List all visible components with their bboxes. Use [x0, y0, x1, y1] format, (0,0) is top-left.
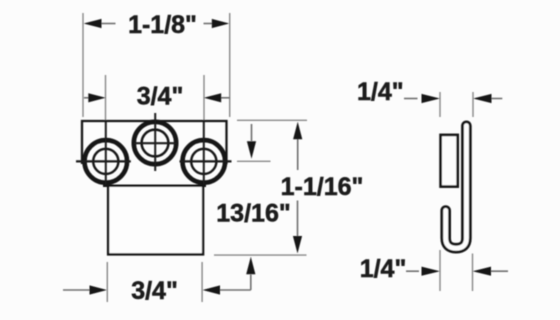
- dimension arrow 1-1/8 right: [204, 23, 213, 25]
- wire: extension line right of side top 1/4 dimension: [472, 92, 474, 117]
- wire: bottom extension line for height dimensions: [214, 254, 307, 256]
- wire: roller centerline reference for 13/16 dimension: [237, 160, 271, 162]
- roller middle vertical centerline: [154, 113, 156, 171]
- svg-text:1-1/8": 1-1/8": [128, 11, 197, 39]
- carrier stem (lower block): [108, 186, 203, 255]
- roller left horizontal centerline: [76, 160, 131, 162]
- roller right vertical centerline: [203, 122, 205, 185]
- wire: extension line right of top 3/4 dimension (roller centerline): [203, 75, 205, 122]
- dimension arrow 1-1/16 bottom (points down): [297, 201, 299, 238]
- svg-text:1/4": 1/4": [357, 78, 404, 106]
- roller left vertical centerline: [105, 122, 107, 185]
- wire: extension line left of side bottom 1/4 dimension: [439, 250, 441, 291]
- svg-text:3/4": 3/4": [137, 83, 184, 111]
- svg-text:1-1/16": 1-1/16": [281, 173, 364, 201]
- dimension arrow 13/16 top (points down): [251, 124, 253, 141]
- roller right inner ring: [191, 149, 216, 174]
- wire: extension line right of bottom 3/4 dimension: [201, 262, 203, 302]
- dimension arrow top 3/4 left: [84, 97, 90, 99]
- wire: extension line right of 1-1/8 dimension: [229, 13, 231, 117]
- svg-text:1/4": 1/4": [360, 255, 407, 283]
- dimension arrow side top 1/4 right: [491, 98, 502, 100]
- roller right outer ring: [183, 140, 226, 183]
- wire: extension line left of side top 1/4 dimension: [439, 92, 441, 117]
- side view hook strip: [446, 126, 467, 248]
- roller middle horizontal centerline: [134, 142, 177, 144]
- carrier body bottom edge: [103, 185, 206, 187]
- wire: extension line left of 1-1/8 dimension: [82, 13, 84, 117]
- carrier body top plate outline: [82, 121, 227, 164]
- dimension arrow bottom 3/4 left: [63, 289, 91, 291]
- dimension arrow side bottom 1/4 right: [490, 270, 508, 272]
- dimension arrow side bottom 1/4 left: [406, 270, 419, 272]
- wire: extension line right of side bottom 1/4 dimension: [472, 254, 474, 292]
- dimension arrow 13/16 bottom (points up): [250, 275, 252, 291]
- wire: extension line left of bottom 3/4 dimension: [106, 262, 108, 302]
- dimension arrow 1-1/16 top (points up): [297, 139, 299, 170]
- roller right horizontal centerline: [180, 160, 232, 162]
- svg-text:3/4": 3/4": [131, 277, 178, 305]
- dimension arrow side top 1/4 left: [404, 98, 418, 100]
- wire: top extension line for 1-1/16 dimension: [237, 119, 307, 121]
- roller middle inner ring: [142, 130, 169, 157]
- roller middle outer ring: [134, 122, 176, 164]
- wire: extension line left of top 3/4 dimension (roller centerline): [105, 75, 107, 122]
- dimension arrow 1-1/8 left: [100, 23, 116, 25]
- dimension arrow bottom 3/4 right with leader to 13/16: [220, 289, 251, 291]
- dimension arrow top 3/4 right: [220, 97, 230, 99]
- roller left outer ring: [85, 140, 128, 183]
- side view roller housing block: [441, 135, 458, 187]
- svg-text:13/16": 13/16": [216, 200, 290, 228]
- roller left inner ring: [93, 149, 118, 174]
